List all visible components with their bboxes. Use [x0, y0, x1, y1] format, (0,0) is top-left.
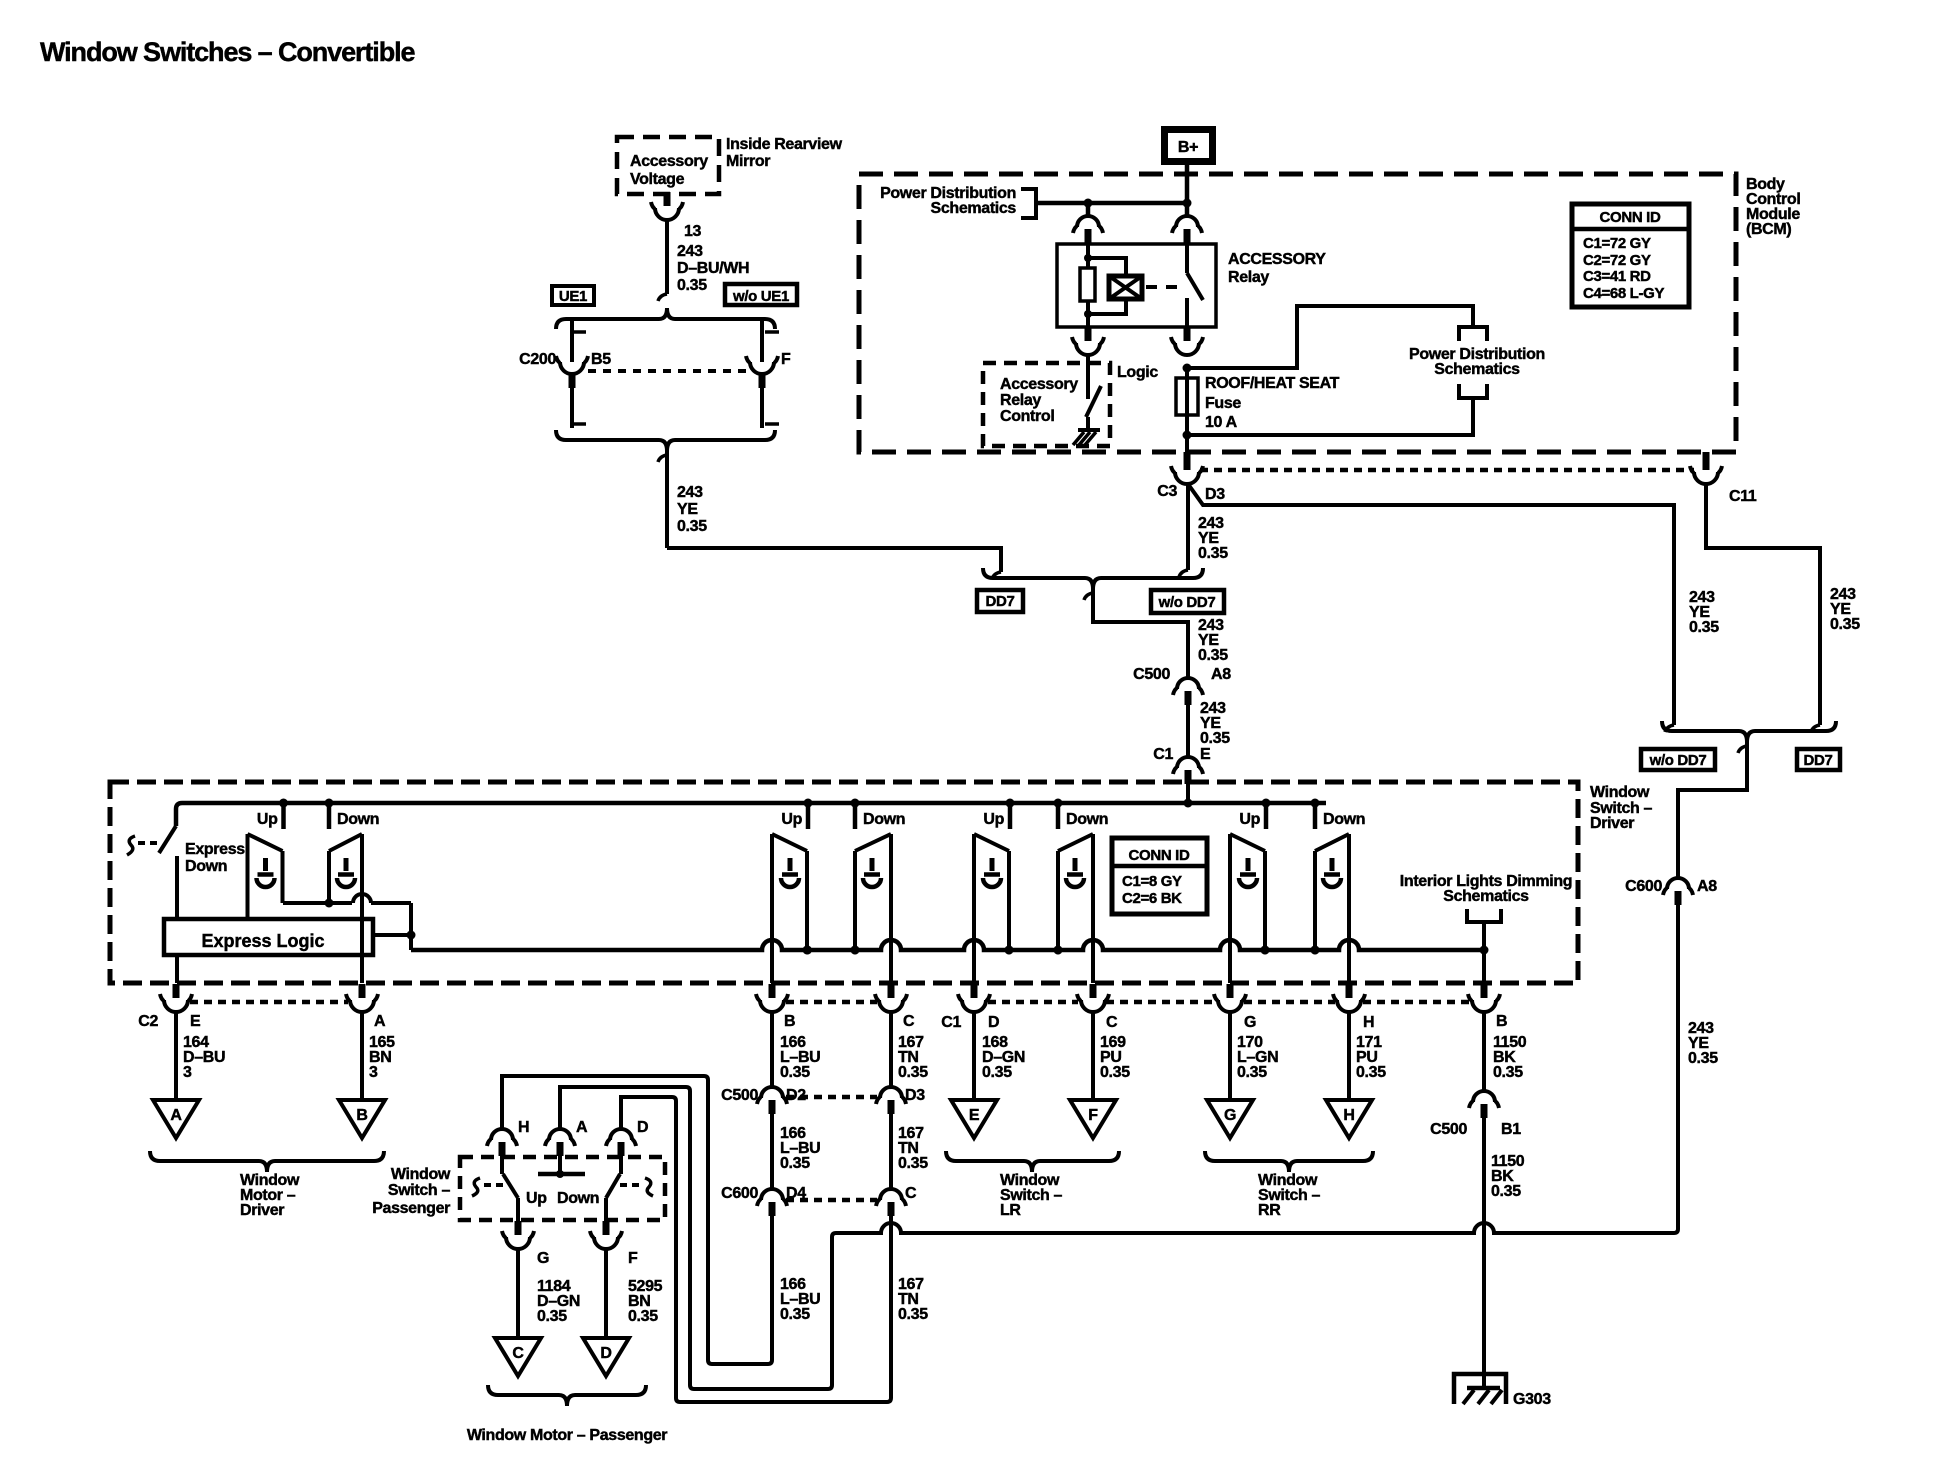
- link wire driver switch to express logic: [283, 901, 352, 905]
- svg-text:A: A: [576, 1119, 588, 1136]
- connector pin 13 at mirror: [664, 192, 671, 206]
- svg-text:Express: Express: [185, 841, 245, 858]
- svg-text:Driver: Driver: [240, 1202, 284, 1219]
- svg-text:G: G: [1224, 1107, 1236, 1124]
- node relay coil feed: [1086, 203, 1091, 216]
- svg-text:D–BU/WH: D–BU/WH: [677, 260, 749, 277]
- svg-text:(BCM): (BCM): [1746, 221, 1791, 238]
- svg-text:0.35: 0.35: [780, 1155, 810, 1172]
- connector passenger switch pin A: [549, 1129, 571, 1140]
- svg-text:C500: C500: [1430, 1121, 1467, 1138]
- svg-text:13: 13: [684, 223, 702, 240]
- svg-text:0.35: 0.35: [1491, 1183, 1521, 1200]
- svg-text:Relay: Relay: [1228, 269, 1269, 286]
- lower bus: [411, 940, 1484, 950]
- ground G303: [1454, 1374, 1506, 1404]
- conn id table BCM: [1572, 204, 1689, 307]
- svg-text:C200: C200: [519, 351, 556, 368]
- wire 1150 BK to ground: [1482, 1117, 1486, 1388]
- window switch pair at 283.5: [279, 799, 288, 808]
- connector C3 pin D3: [1184, 452, 1191, 470]
- wire to RR switch G: [1228, 1012, 1232, 1100]
- connector C500 pin A8: [1177, 678, 1199, 689]
- svg-text:RR: RR: [1258, 1202, 1281, 1219]
- brace window switch LR: [946, 1151, 1119, 1172]
- svg-text:F: F: [1088, 1107, 1098, 1124]
- relay switch contact: [1185, 244, 1189, 273]
- svg-text:243: 243: [677, 243, 703, 260]
- connector passenger switch pin D: [610, 1129, 632, 1140]
- option merge brace: [556, 430, 775, 451]
- svg-text:C: C: [512, 1345, 524, 1362]
- svg-text:0.35: 0.35: [898, 1155, 928, 1172]
- ground (logic): [1078, 428, 1100, 432]
- module box: Accessory Voltage (Inside Rearview Mirror): [617, 137, 719, 194]
- power feed B+: [1161, 126, 1216, 165]
- option label w/o DD7 (right): [1641, 749, 1715, 770]
- svg-text:C2=6 BK: C2=6 BK: [1122, 890, 1182, 907]
- svg-text:UE1: UE1: [559, 288, 587, 305]
- connector passenger switch pin H: [491, 1129, 513, 1140]
- svg-text:A: A: [374, 1013, 386, 1030]
- svg-text:D3: D3: [905, 1087, 925, 1104]
- svg-text:Accessory: Accessory: [630, 153, 708, 170]
- wire 243 YE 0.35 to DD7 split: [665, 451, 669, 548]
- svg-text:0.35: 0.35: [677, 277, 707, 294]
- off-page bracket top: [1459, 327, 1487, 341]
- svg-text:F: F: [628, 1250, 638, 1267]
- svg-text:w/o DD7: w/o DD7: [1649, 752, 1707, 769]
- wire 166 L-BU to passenger switch H: [502, 1076, 772, 1364]
- option label UE1: [552, 286, 594, 305]
- svg-text:Window: Window: [391, 1166, 451, 1183]
- connector C500 pin D3: [880, 1087, 902, 1098]
- upper feed bus: [176, 803, 1326, 826]
- window switch pair at 808: [804, 799, 813, 808]
- svg-text:Schematics: Schematics: [1443, 888, 1529, 905]
- connector C1 pin E: [1177, 757, 1199, 768]
- svg-text:0.35: 0.35: [1100, 1064, 1130, 1081]
- svg-text:H: H: [1363, 1014, 1374, 1031]
- svg-text:C: C: [903, 1013, 915, 1030]
- svg-text:Schematics: Schematics: [1434, 361, 1520, 378]
- svg-text:0.35: 0.35: [1830, 616, 1860, 633]
- svg-text:C3=41 RD: C3=41 RD: [1583, 268, 1651, 285]
- svg-text:Logic: Logic: [1117, 364, 1158, 381]
- svg-text:0.35: 0.35: [1493, 1064, 1523, 1081]
- svg-text:DD7: DD7: [986, 593, 1015, 610]
- svg-text:0.35: 0.35: [537, 1308, 567, 1325]
- RR terminal G: [1207, 1100, 1253, 1138]
- svg-text:B+: B+: [1178, 139, 1198, 156]
- svg-text:G: G: [1244, 1014, 1256, 1031]
- wire 166 to C600 D4: [770, 1114, 774, 1188]
- motor terminal B: [339, 1100, 385, 1138]
- svg-text:Down: Down: [863, 811, 905, 828]
- svg-text:Down: Down: [1323, 811, 1365, 828]
- wire merged 243 YE to C500: [1093, 589, 1188, 677]
- motor terminal D: [583, 1338, 629, 1376]
- passenger switch common feed: [558, 1156, 562, 1174]
- svg-text:C4=68 L-GY: C4=68 L-GY: [1583, 285, 1664, 302]
- svg-text:Down: Down: [1066, 811, 1108, 828]
- svg-text:Schematics: Schematics: [931, 200, 1017, 217]
- svg-text:10 A: 10 A: [1205, 414, 1238, 431]
- wire loop to Power Distribution Schematics: [1187, 306, 1473, 368]
- svg-text:H: H: [1343, 1107, 1354, 1124]
- svg-text:Passenger: Passenger: [372, 1200, 450, 1217]
- window switch pair at 1266: [1262, 799, 1271, 808]
- wire 166 to C500 D2: [770, 1012, 774, 1086]
- svg-text:Up: Up: [1239, 811, 1260, 828]
- motor terminal A: [153, 1100, 199, 1138]
- svg-text:0.35: 0.35: [1688, 1050, 1718, 1067]
- svg-text:C2: C2: [138, 1013, 158, 1030]
- svg-text:B: B: [356, 1107, 367, 1124]
- connector C500 pin B1: [1473, 1091, 1495, 1102]
- svg-text:C: C: [1106, 1014, 1118, 1031]
- svg-text:E: E: [1200, 746, 1211, 763]
- wire to LR switch F: [1091, 1012, 1095, 1100]
- connector C200 pin F: [750, 362, 774, 374]
- wire into driver switch: [1186, 784, 1190, 803]
- svg-text:Window Switches – Convertible: Window Switches – Convertible: [40, 37, 416, 67]
- connector C600 pin D4: [761, 1189, 783, 1200]
- svg-text:D: D: [988, 1014, 999, 1031]
- svg-text:0.35: 0.35: [1198, 545, 1228, 562]
- svg-text:C1=72 GY: C1=72 GY: [1583, 235, 1651, 252]
- wire from schematics to fuse node: [1187, 398, 1473, 435]
- svg-text:C500: C500: [721, 1087, 758, 1104]
- svg-text:Up: Up: [526, 1190, 547, 1207]
- wire merged to C600 A8: [1678, 742, 1747, 877]
- svg-text:G303: G303: [1513, 1391, 1551, 1408]
- svg-text:Switch –: Switch –: [388, 1182, 451, 1199]
- svg-text:B: B: [784, 1013, 795, 1030]
- svg-text:Down: Down: [557, 1190, 599, 1207]
- svg-text:w/o DD7: w/o DD7: [1158, 594, 1216, 611]
- svg-text:Accessory: Accessory: [1000, 376, 1078, 393]
- svg-text:0.35: 0.35: [628, 1308, 658, 1325]
- svg-text:E: E: [969, 1107, 980, 1124]
- module box: Body Control Module BCM: [859, 174, 1736, 452]
- wire B+ rail in BCM: [1036, 201, 1187, 206]
- svg-text:0.35: 0.35: [1237, 1064, 1267, 1081]
- merge brace w/o DD7 / DD7 (right): [1662, 721, 1836, 742]
- svg-text:0.35: 0.35: [1200, 730, 1230, 747]
- svg-text:0.35: 0.35: [780, 1306, 810, 1323]
- wire 243 D-BU/WH 0.35: [665, 220, 669, 294]
- svg-text:Relay: Relay: [1000, 392, 1041, 409]
- wire 1150 BK to C500 B1: [1482, 1012, 1486, 1090]
- svg-text:0.35: 0.35: [982, 1064, 1012, 1081]
- svg-text:Window Motor – Passenger: Window Motor – Passenger: [467, 1427, 667, 1444]
- svg-text:F: F: [781, 351, 791, 368]
- express down switch blade: [159, 826, 176, 853]
- svg-text:Down: Down: [185, 858, 227, 875]
- wire B+ into BCM: [1185, 165, 1190, 216]
- connector passenger F: [603, 1221, 610, 1235]
- svg-text:0.35: 0.35: [898, 1064, 928, 1081]
- mech link left: [472, 1178, 480, 1196]
- wire to RR switch H: [1347, 1012, 1351, 1100]
- svg-text:3: 3: [183, 1064, 192, 1081]
- option label w/o DD7: [1151, 590, 1224, 613]
- brace window switch RR: [1205, 1151, 1373, 1172]
- wire ground exit B: [1482, 950, 1486, 983]
- svg-text:Mirror: Mirror: [726, 153, 770, 170]
- svg-text:C1: C1: [941, 1014, 961, 1031]
- svg-text:Express Logic: Express Logic: [201, 931, 324, 951]
- wire 167 to C500 D3: [889, 1012, 893, 1086]
- svg-text:LR: LR: [1000, 1202, 1021, 1219]
- svg-text:E: E: [190, 1013, 201, 1030]
- wire below B5: [570, 388, 574, 428]
- brace window motor passenger: [488, 1385, 646, 1406]
- dashed row C500: [786, 1095, 877, 1100]
- LR terminal F: [1070, 1100, 1116, 1138]
- module box: Window Switch - Driver: [110, 782, 1578, 983]
- wire 243 YE to C1: [1186, 705, 1190, 756]
- svg-text:Fuse: Fuse: [1205, 395, 1241, 412]
- svg-text:Up: Up: [257, 811, 278, 828]
- svg-text:0.35: 0.35: [1356, 1064, 1386, 1081]
- node C1 E at bus: [1184, 799, 1193, 808]
- wire 167 to C600 C: [889, 1114, 893, 1188]
- mech link right: [645, 1178, 653, 1196]
- svg-text:B: B: [1496, 1013, 1507, 1030]
- wire 243 YE C11 to DD7 brace: [1706, 484, 1820, 725]
- connector passenger G: [515, 1221, 522, 1235]
- dashed connector rows: [190, 1000, 348, 1005]
- logic ground switch: [1086, 356, 1090, 399]
- svg-text:w/o UE1: w/o UE1: [732, 288, 789, 305]
- svg-text:C600: C600: [1625, 878, 1662, 895]
- wire 243 YE from C3 down: [1186, 484, 1190, 570]
- svg-text:C3: C3: [1157, 483, 1177, 500]
- wire express logic to lower bus: [373, 933, 411, 937]
- off-page bracket bottom: [1459, 384, 1487, 398]
- svg-text:0.35: 0.35: [780, 1064, 810, 1081]
- svg-text:B5: B5: [591, 351, 611, 368]
- motor terminal C: [495, 1338, 541, 1376]
- wire to motor B: [360, 1012, 364, 1100]
- svg-text:C11: C11: [1729, 488, 1757, 505]
- wire 243 YE down right side: [1676, 905, 1680, 1229]
- svg-text:YE: YE: [677, 501, 698, 518]
- svg-text:Down: Down: [337, 811, 379, 828]
- relay box ACCESSORY Relay: [1057, 244, 1216, 327]
- connector C600 pin A8: [1667, 878, 1689, 889]
- node relay output: [1183, 364, 1192, 373]
- svg-text:B1: B1: [1501, 1121, 1521, 1138]
- module box: Accessory Relay Control: [983, 363, 1110, 446]
- svg-text:0.35: 0.35: [898, 1306, 928, 1323]
- svg-text:D: D: [600, 1345, 611, 1362]
- svg-text:D3: D3: [1205, 486, 1225, 503]
- dashed connector link C200: [588, 369, 748, 373]
- svg-text:C1: C1: [1153, 746, 1173, 763]
- svg-text:Window: Window: [1590, 784, 1650, 801]
- option split brace: [556, 308, 775, 329]
- wire 167 TN to passenger switch D: [621, 1097, 891, 1402]
- wires express logic outputs: [175, 955, 179, 983]
- svg-text:ACCESSORY: ACCESSORY: [1228, 251, 1326, 268]
- svg-text:Driver: Driver: [1590, 815, 1634, 832]
- window switch pair at 1010: [1006, 799, 1015, 808]
- wire 243 YE to passenger switch A: [560, 1087, 1678, 1389]
- svg-text:0.35: 0.35: [1198, 647, 1228, 664]
- svg-text:A: A: [170, 1107, 182, 1124]
- svg-text:Voltage: Voltage: [630, 171, 685, 188]
- option label DD7 (right): [1797, 749, 1840, 770]
- RR terminal H: [1326, 1100, 1372, 1138]
- dashed connector row line: [1200, 468, 1694, 473]
- wire express down to logic: [175, 856, 179, 919]
- svg-text:H: H: [518, 1119, 529, 1136]
- express logic box: [164, 919, 373, 955]
- svg-text:C600: C600: [721, 1185, 758, 1202]
- relay coil resistor: [1086, 244, 1090, 268]
- merge brace DD7 / w/o DD7: [983, 568, 1203, 589]
- wire w/o UE1 branch: [760, 319, 764, 362]
- wire to motor A: [174, 1012, 178, 1100]
- dashed row C600: [786, 1198, 877, 1203]
- svg-text:3: 3: [369, 1064, 378, 1081]
- relay coil core symbol: [1109, 276, 1142, 299]
- wire UE1 branch: [570, 319, 574, 362]
- off-page bracket interior lights: [1467, 909, 1501, 922]
- svg-text:Up: Up: [781, 811, 802, 828]
- passenger switch up contact: [500, 1156, 504, 1174]
- svg-text:ROOF/HEAT SEAT: ROOF/HEAT SEAT: [1205, 375, 1340, 392]
- wire 5295 BN: [604, 1249, 608, 1338]
- fuse ROOF/HEAT SEAT 10A: [1185, 368, 1189, 452]
- connector C200 pin B5: [560, 362, 584, 374]
- svg-text:D: D: [637, 1119, 648, 1136]
- LR terminal E: [951, 1100, 997, 1138]
- connector C500 pin D2: [761, 1087, 783, 1098]
- connector into relay coil: [1077, 216, 1099, 227]
- svg-text:G: G: [537, 1250, 549, 1267]
- wire to LR switch E: [972, 1012, 976, 1100]
- wire 243 YE C3 to w/o DD7 brace: [1188, 484, 1674, 725]
- svg-text:C: C: [905, 1185, 917, 1202]
- module box: Window Switch - Passenger: [460, 1157, 665, 1220]
- svg-text:Up: Up: [983, 811, 1004, 828]
- wire below F: [760, 388, 764, 428]
- passenger switch down contact: [619, 1156, 623, 1174]
- option label w/o UE1: [725, 284, 797, 305]
- connector into relay switch: [1176, 216, 1198, 227]
- relay switch output connector: [1184, 327, 1191, 341]
- driver switch connector exits: [173, 984, 180, 998]
- svg-text:CONN ID: CONN ID: [1600, 209, 1661, 226]
- connector C600 pin C: [880, 1189, 902, 1200]
- conn id table driver switch: [1112, 838, 1207, 914]
- wire 1184 D-GN: [516, 1249, 520, 1338]
- relay coil output connector: [1085, 327, 1092, 341]
- relay actuation dashed link: [1146, 285, 1180, 289]
- off-page bracket left: [1021, 189, 1036, 218]
- svg-text:0.35: 0.35: [677, 518, 707, 535]
- svg-text:243: 243: [677, 484, 703, 501]
- svg-text:Control: Control: [1000, 408, 1054, 425]
- brace window motor driver: [150, 1151, 384, 1172]
- svg-text:A8: A8: [1697, 878, 1717, 895]
- connector C11: [1703, 452, 1710, 470]
- svg-text:A8: A8: [1211, 666, 1231, 683]
- option label DD7: [977, 590, 1023, 612]
- svg-text:C500: C500: [1133, 666, 1170, 683]
- svg-text:0.35: 0.35: [1689, 619, 1719, 636]
- svg-text:C2=72 GY: C2=72 GY: [1583, 252, 1651, 269]
- svg-text:C1=8 GY: C1=8 GY: [1122, 873, 1182, 890]
- svg-text:Inside Rearview: Inside Rearview: [726, 136, 843, 153]
- svg-text:DD7: DD7: [1804, 752, 1833, 769]
- svg-text:CONN ID: CONN ID: [1129, 847, 1190, 864]
